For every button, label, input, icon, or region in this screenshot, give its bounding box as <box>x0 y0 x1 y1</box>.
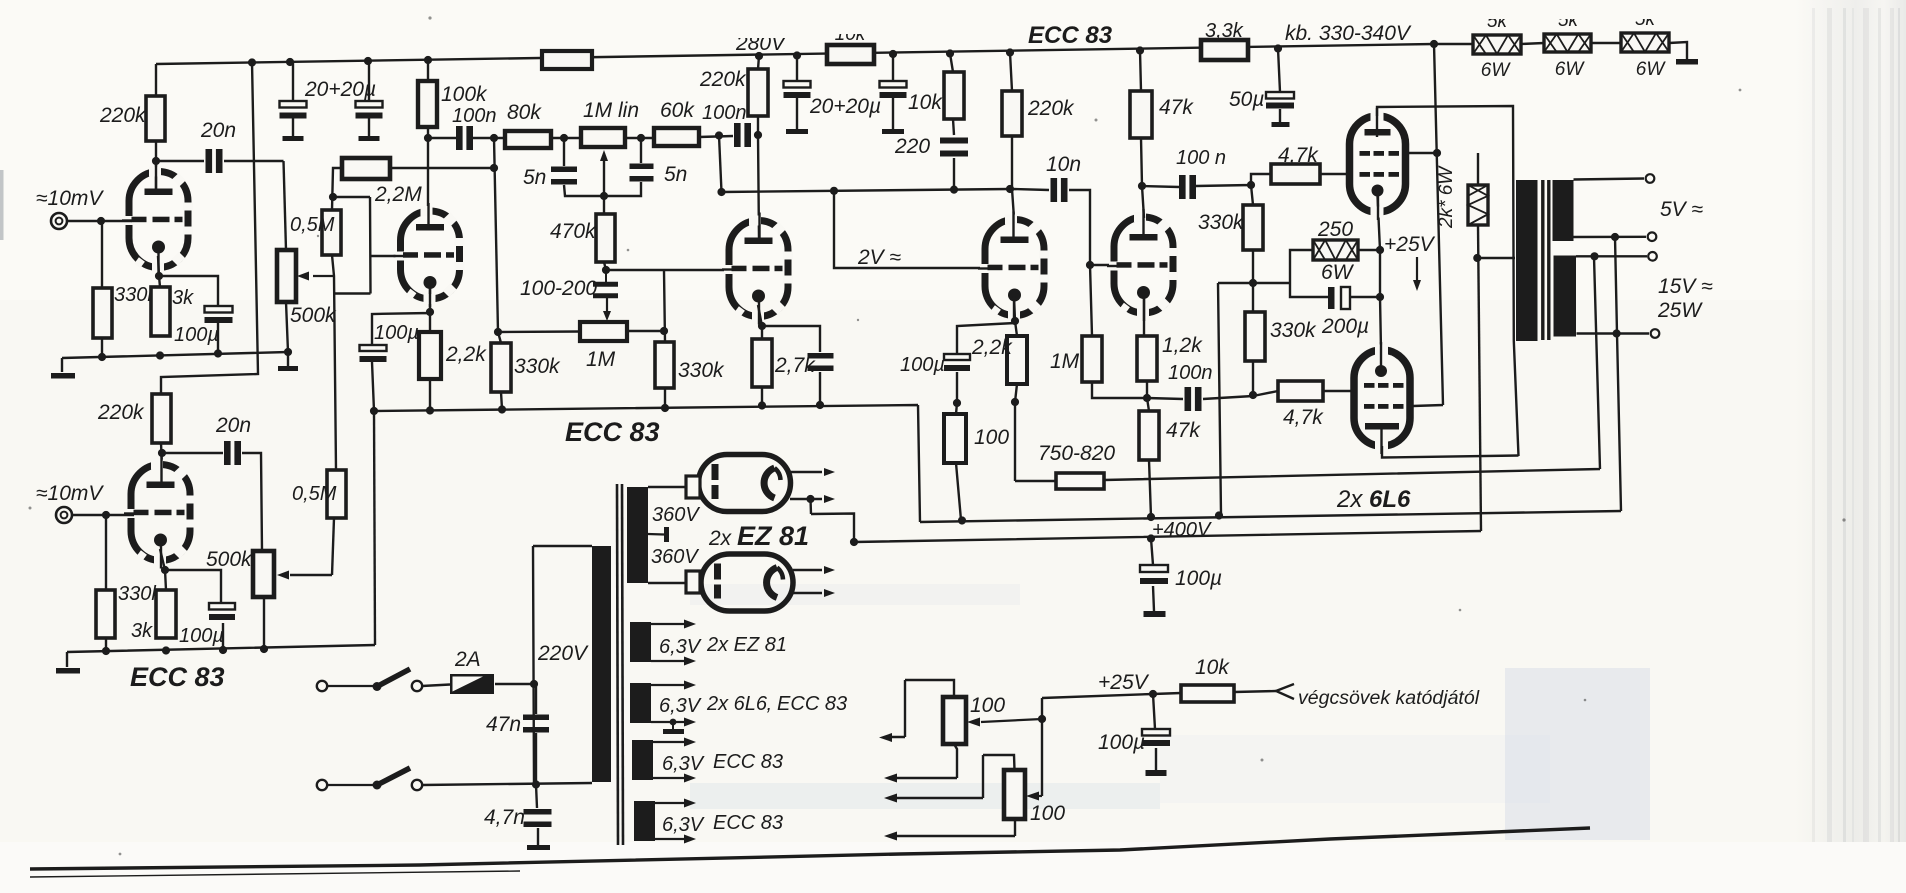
wire: R38 to U7 grid <box>1323 390 1353 392</box>
input terminal J1 <box>51 213 67 229</box>
wire: SW1 to fuse <box>422 685 450 687</box>
tube U6 6L6 (upper) <box>1350 116 1406 212</box>
svg-text:100n: 100n <box>1168 362 1213 384</box>
fuse 2A <box>450 674 494 694</box>
wire: U6 anode to OPT primary top <box>1377 106 1519 456</box>
scan specks <box>29 507 32 510</box>
transformer heater winding W2 (6L6/ECC83) <box>630 683 651 723</box>
svg-text:100: 100 <box>974 426 1009 449</box>
transformer PT core <box>617 484 618 845</box>
capacitor C13 220 <box>940 138 968 144</box>
resistor R33 1,2k <box>1137 336 1157 381</box>
capacitor C18 100n (fb) <box>1185 387 1192 411</box>
resistor 2,2M <box>342 158 390 179</box>
svg-text:220: 220 <box>894 135 930 158</box>
resistor R6 3k <box>156 590 176 638</box>
svg-text:ECC 83: ECC 83 <box>713 812 783 834</box>
capacitor C17 100n <box>1179 175 1186 199</box>
wire+arrows: U8 outputs <box>790 472 822 499</box>
chassis tick below 4,7n <box>527 845 550 850</box>
wire: U1 cathode to R3/C2 <box>158 256 218 352</box>
transformer PT primary frame <box>533 546 592 785</box>
switch SW1 (mains upper) <box>317 681 327 691</box>
transformer PT primary winding bar <box>592 546 611 782</box>
wire: pot B wiper up to 0,5M B <box>332 518 334 575</box>
svg-text:60k: 60k <box>660 99 695 122</box>
terminal T4 <box>1651 329 1660 338</box>
wire: U6 screen to dropper node <box>1405 153 1478 185</box>
resistor 10k (top rail) <box>827 45 874 64</box>
resistor R32 1M (vertical) <box>1082 336 1102 382</box>
svg-text:220k: 220k <box>97 401 145 424</box>
potentiometer 500k (ch A volume) <box>277 250 296 302</box>
wire: +25V rail from bias network to 10k <box>1042 691 1276 698</box>
wire: U5 anode from 47k <box>1140 51 1144 219</box>
wire: 60k to C12 <box>699 136 733 137</box>
wire: 1Mlin to 60k <box>625 137 654 139</box>
capacitor C14 100u (U4 cathode) <box>944 354 970 360</box>
svg-text:100n: 100n <box>702 102 747 124</box>
capacitor C8 5n (right) <box>630 164 654 170</box>
svg-text:kb. 330-340V: kb. 330-340V <box>1285 22 1412 45</box>
resistor R26 220k (U4 anode) <box>1002 91 1022 136</box>
svg-text:330k: 330k <box>514 355 561 378</box>
wire: R39 right lead / +25V node <box>1358 249 1380 251</box>
svg-text:250: 250 <box>1317 218 1353 241</box>
svg-text:20n: 20n <box>200 119 236 142</box>
tube U4 ECC83 triode <box>985 220 1044 316</box>
resistor 5k 6W #2 <box>1544 34 1591 52</box>
svg-text:100-200: 100-200 <box>520 277 597 300</box>
wire: main B+ top rail <box>156 44 1434 64</box>
ground top-right <box>1676 59 1698 65</box>
wire: line480 cathode/feedback bus <box>1015 257 1600 481</box>
svg-text:100µ: 100µ <box>1175 567 1222 590</box>
wire: drop from C12-left node to long mid wire <box>719 136 722 193</box>
wire: U1 anode lead <box>155 141 157 193</box>
svg-text:47k: 47k <box>1159 96 1194 119</box>
wire: 200u to cathode line <box>1350 296 1380 298</box>
resistor R34 47k <box>1139 411 1159 460</box>
resistor R37 4,7k (U6 grid stopper) <box>1271 164 1320 184</box>
wire: U3 cathode network <box>758 305 820 405</box>
resistor R3 3k <box>151 287 170 336</box>
ground G1 (input stage) <box>51 373 75 379</box>
svg-text:+25V: +25V <box>1098 671 1150 694</box>
capacitor C5 100u (U2 cathode bypass) <box>209 603 235 610</box>
svg-text:2k* 6W: 2k* 6W <box>1436 165 1457 229</box>
svg-text:20+20µ: 20+20µ <box>809 95 881 118</box>
bottom page rule thin <box>30 871 520 877</box>
transformer OPT core <box>1541 180 1544 340</box>
wire: 220k U4 anode load <box>1010 53 1014 219</box>
capacitor C2 100u cathode bypass <box>205 306 233 313</box>
wire: +400V center tap to OPT primary <box>1477 257 1515 259</box>
svg-text:6,3V: 6,3V <box>662 753 705 775</box>
svg-text:47n: 47n <box>486 713 521 736</box>
wire: grid feed vertical to U2 grid <box>370 197 401 294</box>
capacitor C6 100n <box>456 126 463 150</box>
capacitor C21 100u (+25V) <box>1153 694 1156 770</box>
svg-text:200µ: 200µ <box>1321 315 1369 338</box>
svg-text:50µ: 50µ <box>1229 88 1264 111</box>
wire: U4 cathode network <box>956 296 1017 520</box>
wire: 80k to 1Mlin <box>551 137 581 139</box>
wire: 100n to output grid chain <box>1142 174 1271 205</box>
svg-text:0,5M: 0,5M <box>290 214 335 236</box>
wire: R4 bottom / U2 anode / 20n2 <box>161 443 262 551</box>
svg-text:10n: 10n <box>1046 153 1081 176</box>
resistor R25 10k <box>944 72 964 119</box>
svg-text:+25V: +25V <box>1384 233 1436 256</box>
svg-text:3k: 3k <box>172 287 194 309</box>
wiper of hum pot A <box>981 719 1042 722</box>
wire: feedback vertical from C6 node to 1M/330k node <box>494 138 498 332</box>
wire: R40 bottom to +400V line <box>1478 225 1481 531</box>
svg-text:220k: 220k <box>699 68 747 91</box>
wire: hum pot B top path with arrow <box>896 755 1015 798</box>
wire: 10k dropper leads / 220 cap <box>950 54 954 191</box>
resistor R22 2,7k <box>752 339 772 387</box>
svg-text:2x 6L6: 2x 6L6 <box>1336 486 1411 513</box>
svg-text:3,3k: 3,3k <box>1205 20 1244 42</box>
capacitor C4 20n (ch B coupling) <box>224 441 231 465</box>
resistor R16 60k <box>654 128 699 146</box>
wire+arrow: trimmer into 1M <box>605 270 607 284</box>
capacitor 20+20u #2a <box>784 81 811 88</box>
wire: U2 cathode network <box>160 549 223 651</box>
wire: secondary common down to ground line <box>1615 237 1621 511</box>
capacitor 20+20u #1b <box>356 101 383 108</box>
resistor R28 100 (hum pot feed) <box>944 414 966 463</box>
tube U1 ECC83 triode <box>129 172 188 268</box>
wire: long mid wire (U3 out region) <box>722 189 1011 192</box>
node dots on top rail <box>248 58 256 66</box>
svg-text:ECC 83: ECC 83 <box>130 662 225 692</box>
svg-text:4,7k: 4,7k <box>1283 406 1324 429</box>
svg-text:2,2k: 2,2k <box>971 336 1013 359</box>
transformer OPT primary winding <box>1516 180 1538 341</box>
transformer OPT secondary 5V winding <box>1553 180 1574 241</box>
wire: R19 leads <box>498 332 502 409</box>
wire: U6 cathode line down to U7 <box>1378 196 1382 350</box>
wire: HV secondary to EZ81 plates <box>648 487 686 583</box>
svg-text:80k: 80k <box>507 101 542 124</box>
wire: R34 leads <box>1147 398 1151 517</box>
wire: C6 to 80k <box>472 137 505 139</box>
wire: R5 330k drop <box>105 515 107 651</box>
capacitor 20+20u #2b <box>880 81 907 88</box>
page-top crop masks over cut labels <box>1462 0 1682 19</box>
svg-text:6W: 6W <box>1321 261 1355 284</box>
wire: hum pot B bottom path with arrow <box>896 819 1015 836</box>
bottom page rule <box>30 828 1590 869</box>
scan edge mark left <box>0 170 4 240</box>
wire: 2,2M right to feedback node <box>390 167 494 169</box>
resistor 3,3k <box>1201 40 1248 60</box>
resistor R14 80k <box>505 131 551 148</box>
wire: U1 grid input <box>67 220 132 222</box>
svg-text:750-820: 750-820 <box>1038 442 1115 465</box>
resistor R38 4,7k (U7 grid) <box>1278 381 1323 401</box>
svg-text:220k: 220k <box>1027 97 1075 120</box>
svg-text:végcsövek katódjától: végcsövek katódjától <box>1298 687 1480 709</box>
svg-text:47k: 47k <box>1166 419 1201 442</box>
resistor R20 2,2k <box>419 332 441 379</box>
svg-text:10k: 10k <box>908 91 943 114</box>
resistor R4 220k (U2 anode load) <box>152 394 171 443</box>
wire: grid leak R2 drop <box>101 221 103 356</box>
svg-text:0,5M: 0,5M <box>292 483 337 505</box>
svg-text:1M lin: 1M lin <box>583 99 639 122</box>
wire: first 20+20u cap leads <box>293 61 369 136</box>
terminal T1 <box>1646 174 1655 183</box>
svg-text:10k: 10k <box>1195 656 1230 679</box>
resistor R5 330k <box>96 590 115 638</box>
svg-text:100µ: 100µ <box>374 322 419 344</box>
wire: hum pot A top path with arrow <box>891 680 954 737</box>
wire: OPT 5V taps to terminals <box>1574 179 1647 238</box>
wire: U2 grid input <box>72 514 134 516</box>
svg-text:ECC 83: ECC 83 <box>565 417 660 447</box>
wire: ground bus line517 <box>920 511 1621 522</box>
svg-text:330k: 330k <box>1198 211 1245 234</box>
svg-text:≈10mV: ≈10mV <box>36 482 104 505</box>
svg-text:2V ≈: 2V ≈ <box>857 246 902 269</box>
svg-text:6W: 6W <box>1481 60 1512 81</box>
wire: U2b cathode node <box>372 288 430 411</box>
scan artifact: bottom tint patches <box>1505 668 1650 840</box>
transformer heater winding W3 (ECC83) <box>632 740 653 780</box>
svg-text:5n: 5n <box>523 166 546 189</box>
ground G3 <box>56 668 80 674</box>
wire: R12 100k from rail <box>428 61 457 211</box>
resistor R30 47k (U5 anode) <box>1130 91 1152 138</box>
svg-text:100k: 100k <box>441 83 488 106</box>
wire: pot B bottom to ground bus <box>263 597 265 651</box>
wire: 470k top <box>603 196 605 214</box>
svg-text:1,2k: 1,2k <box>1162 334 1203 357</box>
svg-text:+400V: +400V <box>1152 519 1212 541</box>
resistor 0,5M (ch B mix) <box>327 470 346 518</box>
svg-text:360V: 360V <box>651 546 699 568</box>
wire: 0,5M bottom to wiper line and down to ch B 0,5M <box>332 255 371 470</box>
wire: U5 cathode to 1,2k <box>1144 293 1147 398</box>
svg-text:500k: 500k <box>206 548 253 571</box>
svg-text:100: 100 <box>970 694 1005 717</box>
wire: signal ground bus (mid) <box>374 405 920 522</box>
svg-text:20+20µ: 20+20µ <box>304 78 376 101</box>
wire: R32 bottom to node <box>1092 382 1147 398</box>
resistor 5k 6W #1 <box>1473 35 1521 54</box>
wire: R35-R36 chain <box>1253 250 1278 396</box>
resistor 5k 6W #3 <box>1621 33 1669 52</box>
resistor R29 750-820 (common cathode) <box>1056 473 1104 489</box>
svg-text:470k: 470k <box>550 220 597 243</box>
wiper of hum pot B <box>1038 795 1042 797</box>
resistor R21 330k <box>655 342 674 388</box>
resistor R18 1M (horizontal) <box>580 322 627 341</box>
wire: R21 bottom <box>664 388 666 408</box>
wire: 5n left leads <box>564 138 604 196</box>
wire: OPT 15V taps to terminals <box>1576 256 1649 333</box>
tube U5 ECC83 triode <box>1114 217 1173 313</box>
HV center tap mark <box>648 533 664 536</box>
svg-text:220V: 220V <box>537 642 589 665</box>
svg-text:15V ≈: 15V ≈ <box>1658 275 1713 298</box>
capacitor C15 10n <box>1051 178 1058 202</box>
svg-text:2,2k: 2,2k <box>445 343 487 366</box>
svg-text:6W: 6W <box>1636 59 1667 80</box>
potentiometer 100 (hum balance A) <box>943 697 966 744</box>
wire: R39 left lead to 200u <box>1290 250 1328 297</box>
svg-text:2x 6L6‚ ECC 83: 2x 6L6‚ ECC 83 <box>706 693 847 715</box>
wire: 2,2M left lead and 0,5M top <box>332 168 370 210</box>
svg-text:2x EZ 81: 2x EZ 81 <box>706 634 787 656</box>
tube U3 ECC83 triode <box>729 221 788 317</box>
wire: channel B ground bus <box>67 645 375 667</box>
svg-text:100 n: 100 n <box>1176 147 1226 169</box>
wire: +400V bus line537 <box>811 499 1482 542</box>
transformer heater winding W4 (ECC83) <box>634 801 655 841</box>
svg-text:ECC 83: ECC 83 <box>713 751 783 773</box>
wire: 2V~ step to U4 grid <box>834 191 985 268</box>
svg-text:2A: 2A <box>454 648 481 671</box>
svg-text:2,2M: 2,2M <box>374 183 422 206</box>
wire: R37 to U6 grid <box>1320 173 1350 175</box>
wire: 5n right leads <box>604 138 641 196</box>
wiper arrow into 1Mlin from below <box>603 158 605 196</box>
svg-text:1M: 1M <box>586 348 616 371</box>
tube U2 ECC83 triode (channel B input) <box>131 465 190 561</box>
transformer PT HV secondary winding <box>627 487 648 583</box>
wire: screen bus vertical <box>1413 44 1443 406</box>
svg-text:100µ: 100µ <box>900 354 945 376</box>
ground G2 (below volume pot) <box>278 366 298 371</box>
wire: bus link vertical (bus A to bus B) <box>374 411 375 645</box>
svg-text:6W: 6W <box>1555 59 1586 80</box>
svg-text:330k: 330k <box>1270 319 1317 342</box>
switch SW2 (mains lower) <box>317 780 327 790</box>
resistor R40 2k* 6W (screen dropper) <box>1468 185 1488 225</box>
resistor R19 330k <box>491 343 511 392</box>
potentiometer 1M lin (tone) <box>581 128 625 147</box>
resistor R17 470k <box>596 214 615 262</box>
svg-text:6,3V: 6,3V <box>662 814 705 836</box>
wire+arrows: U9 outputs <box>793 570 822 593</box>
wire: screen tie line y283 <box>1218 283 1290 514</box>
tube U8 EZ81 (upper) <box>699 455 791 512</box>
wire: second 20+20u caps <box>797 54 893 129</box>
wire: 10n coupling U4 to U5 <box>1012 189 1113 336</box>
capacitor C22 47n (line filter) <box>535 684 537 785</box>
capacitor C19 200u <box>1328 287 1335 309</box>
wire: fuse to primary top corner <box>495 683 533 685</box>
svg-text:3k: 3k <box>131 620 153 642</box>
svg-text:6,3V: 6,3V <box>659 695 702 717</box>
svg-text:330k: 330k <box>678 359 725 382</box>
svg-text:≈10mV: ≈10mV <box>36 187 104 210</box>
wire: B+ drop to R1 220k <box>155 64 157 96</box>
capacitor 20+20u #1a <box>280 101 307 108</box>
svg-text:25W: 25W <box>1657 299 1703 322</box>
resistor R39 250 6W <box>1313 240 1358 260</box>
tube U7 6L6 (lower) <box>1354 350 1410 446</box>
svg-text:ECC 83: ECC 83 <box>1028 22 1113 49</box>
transformer heater winding W1 (EZ81) <box>630 622 651 662</box>
svg-text:1M: 1M <box>1050 350 1080 373</box>
capacitor C20 100u (+400V reservoir) <box>1151 539 1154 612</box>
terminal T3 <box>1648 252 1657 261</box>
wire: 1M left to feedback node, right to 330k <box>498 331 665 332</box>
potentiometer 100 (hum balance B) <box>1004 770 1025 819</box>
wire: 20n coupling from anode <box>156 160 284 162</box>
wire: wiper bus vertical <box>1041 698 1043 796</box>
open arrow: from output tube cathodes <box>1276 684 1294 699</box>
resistor R27 2,2k (U4 cathode) <box>1007 336 1027 384</box>
resistor R35 330k (upper) <box>1243 205 1263 250</box>
svg-text:100: 100 <box>1030 802 1065 825</box>
plate box U8 <box>686 476 700 498</box>
resistor 0,5M (ch A mix) <box>322 210 341 255</box>
capacitor C16 50u <box>1278 49 1280 123</box>
wiper arrow of 500k pot <box>313 275 334 277</box>
wire: U3 anode feed from rail via 220k <box>758 56 759 240</box>
transformer OPT secondary 15V winding <box>1554 256 1577 337</box>
tube U9 EZ81 (lower) <box>701 554 793 611</box>
capacitor C22b (U3 cathode bypass) <box>808 353 834 359</box>
input terminal J2 <box>56 507 72 523</box>
capacitor C10 100u (mid cathode bypass) <box>360 345 387 351</box>
wire: PSU chain to bleeders and ground top right <box>1434 42 1687 59</box>
resistor R12 100k <box>418 81 437 127</box>
arrow: +25V pointer down <box>1416 257 1418 282</box>
wire: SW2 to primary bottom <box>422 783 592 785</box>
wire: hum pot A bottom path with arrow <box>896 744 957 778</box>
capacitor C1 20n <box>206 149 213 173</box>
resistor (series, top rail, unlabeled) <box>542 51 592 69</box>
tube U2m ECC83 triode (mixer stage) <box>401 211 460 299</box>
wire: B+ feed vertical to lower stage <box>161 62 258 394</box>
resistor R36 330k (lower) <box>1245 312 1265 361</box>
svg-text:5V ≈: 5V ≈ <box>1660 198 1704 221</box>
capacitor C23 4,7n (line to chassis) <box>536 785 538 846</box>
wire: U7 plate to OPT primary bottom wire <box>1382 446 1519 458</box>
W2 center tap ground tick <box>670 719 677 726</box>
terminal T2 <box>1648 232 1657 241</box>
svg-text:220k: 220k <box>99 104 147 127</box>
wire: channel A ground bus <box>62 302 288 372</box>
svg-text:4,7k: 4,7k <box>1278 144 1319 167</box>
svg-text:5n: 5n <box>664 163 687 186</box>
svg-text:100µ: 100µ <box>179 625 224 647</box>
wire: C18 wire to 330k chain <box>1147 396 1253 399</box>
resistor R1 220k <box>146 96 165 141</box>
wire: 470k bottom node to U3 grid <box>604 262 731 342</box>
resistor R23 220k (U3 anode load) <box>748 69 768 116</box>
svg-text:6,3V: 6,3V <box>659 636 702 658</box>
svg-text:500k: 500k <box>290 304 337 327</box>
wire: jog 20n output down to 500k pot <box>284 161 287 250</box>
capacitor C12 100n (into U3 node) <box>734 123 741 147</box>
plate box U9 <box>686 571 700 593</box>
svg-text:100µ: 100µ <box>174 324 219 346</box>
potentiometer 500k (ch B volume) <box>253 551 274 597</box>
capacitor C7 5n (left) <box>551 167 577 173</box>
wiper arrow of ch B 500k pot <box>290 574 332 576</box>
svg-text:100µ: 100µ <box>1098 731 1145 754</box>
resistor R2 330k <box>93 288 112 338</box>
